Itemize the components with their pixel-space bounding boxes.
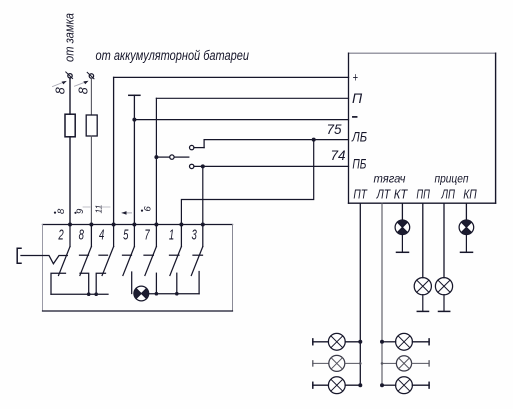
- lamp HL5 row2: [381, 356, 429, 371]
- wire: battery + line to flasher box: [114, 76, 349, 78]
- node: ПП bottom terminal bar: [417, 310, 428, 312]
- wire: drop to switch terminal 3: [202, 166, 204, 224]
- wire: minus line to flasher box: [134, 119, 348, 121]
- switch contact 5: stem, blade, fixed tick: [123, 225, 135, 276]
- switch contact 8: stem, blade, fixed tick: [80, 225, 92, 276]
- svg-text:КП: КП: [463, 186, 477, 201]
- wire: П drop to switch terminal 7: [155, 98, 157, 224]
- svg-text:ЛБ: ЛБ: [351, 130, 367, 145]
- svg-text:от аккумуляторной батареи: от аккумуляторной батареи: [96, 48, 250, 63]
- wire: ПП lamp to terminal bar: [422, 295, 424, 312]
- lamp HL-КП (control lamp trailer): [459, 220, 474, 235]
- switch contact 1: stem, blade, fixed tick: [170, 225, 182, 276]
- svg-text:прицеп: прицеп: [435, 173, 470, 185]
- junction dot bus at contact 1 dropper: [175, 292, 179, 296]
- lamp HL-КТ (control lamp tractor): [395, 220, 410, 235]
- switch contact 3: stem, blade, fixed tick: [191, 225, 203, 276]
- svg-text:от замка: от замка: [62, 13, 77, 62]
- svg-text:5: 5: [123, 227, 128, 244]
- wire: right ignition wire upper: [90, 78, 92, 115]
- wire: КП to control lamp: [465, 203, 467, 220]
- switch contact 4: stem, blade, fixed tick: [99, 225, 114, 276]
- svg-text:3: 3: [192, 227, 197, 244]
- junction dot bus at contact 7 dropper: [155, 292, 159, 296]
- pin label −: [353, 116, 357, 118]
- wire: КТ lamp to terminal bar: [401, 235, 403, 253]
- wire: ПТ to right lamp group bus: [359, 203, 361, 386]
- wire: left ignition wire lower: [69, 137, 71, 225]
- wire label 11 above terminal 4: [94, 204, 111, 213]
- wire: ЛБ / 75 line to flasher box: [204, 139, 348, 141]
- junction dot row1 on ПТ bus: [358, 340, 362, 344]
- fuse F2: [86, 115, 97, 136]
- wire: contact 5 dropper to lamp: [131, 272, 133, 294]
- wire label 8 above terminal 2: [54, 208, 67, 214]
- junction: minus line tap: [132, 118, 136, 122]
- node: feed bracket at left of switch: [17, 248, 21, 263]
- switch block SA1 (hazard/light switch): [43, 225, 233, 312]
- svg-text:6: 6: [143, 206, 154, 212]
- svg-text:1: 1: [169, 227, 174, 244]
- lamp HL-ЛП: [435, 278, 452, 295]
- junction dots at switch box top edge: [68, 223, 72, 227]
- relay box U1 (flasher unit): [349, 53, 496, 203]
- wire: contact 2 hook and dropper: [51, 273, 66, 294]
- svg-text:8: 8: [79, 227, 84, 244]
- wire: КП lamp to terminal bar: [465, 235, 467, 253]
- wire label 8 (right ignition wire): [75, 81, 91, 95]
- svg-text:4: 4: [99, 227, 104, 244]
- wire: КТ to control lamp: [401, 203, 403, 220]
- node: ignition feed terminal 2 (circle with slash): [87, 72, 94, 79]
- svg-text:8: 8: [77, 87, 91, 94]
- wire: left ignition wire upper: [69, 78, 71, 114]
- lamp HL-SA (switch block illumination lamp): [134, 286, 149, 301]
- svg-text:КТ: КТ: [394, 186, 408, 201]
- switch contact 2: stem and blade: [59, 225, 71, 276]
- wire label 9 above terminal 8: [74, 207, 90, 214]
- wire: ЛТ to left lamp group bus: [381, 203, 383, 386]
- svg-text:ЛТ: ЛТ: [376, 186, 391, 201]
- junction: turn-switch wiper tap: [154, 155, 158, 159]
- lamp HL6 row3: [382, 377, 429, 394]
- wire: drop to switch terminal 5: [133, 95, 135, 224]
- switch S1 wiper arm: [156, 155, 188, 159]
- junction dot bus at contact 4 dropper: [94, 292, 98, 296]
- wire: bus from lamp to contact 3 dropper: [149, 293, 199, 295]
- wire: ПП to lamp: [422, 203, 424, 277]
- wire: bus under contacts 2-4: [51, 293, 108, 295]
- wire: contact 3 dropper: [198, 272, 200, 294]
- svg-text:7: 7: [144, 227, 150, 244]
- svg-text:ПБ: ПБ: [352, 157, 366, 172]
- junction dot row3 on ПТ bus: [358, 383, 362, 387]
- wire: contact 4 hook and dropper: [96, 273, 105, 294]
- junction dot row1 on ЛТ bus: [380, 340, 384, 344]
- junction dot bus at contact 8 dropper: [87, 292, 91, 296]
- fuse F1: [65, 114, 75, 137]
- lamp HL1 row1: [313, 333, 361, 350]
- node: terminal T-bar on wire 5: [129, 94, 140, 96]
- wire: terminal 1 riser to ЛБ line: [181, 140, 313, 225]
- svg-text:9: 9: [75, 208, 86, 214]
- node: ignition feed terminal 1 (circle with slash): [66, 72, 73, 79]
- wire: contact 1 dropper: [176, 273, 178, 294]
- svg-text:8: 8: [54, 87, 68, 94]
- svg-text:+: +: [353, 71, 359, 85]
- svg-text:74: 74: [331, 148, 346, 163]
- wire: right ignition wire lower: [90, 136, 92, 225]
- lamp HL4 row1: [382, 333, 429, 350]
- svg-text:8: 8: [56, 208, 67, 214]
- wire: ЛП to lamp: [443, 203, 445, 277]
- wire: contact 7 dropper: [155, 273, 157, 294]
- lamp HL-ПП: [414, 278, 431, 295]
- wire: ЛП lamp to terminal bar: [443, 295, 445, 312]
- switch contact 7: stem, blade, fixed tick: [144, 225, 156, 276]
- switch S1 lower contact (to ПБ): [190, 164, 349, 168]
- junction: ПБ tap to terminal 3: [201, 164, 205, 168]
- lamp HL2 row2: [313, 355, 362, 371]
- node: КТ bottom terminal bar: [397, 251, 409, 253]
- node: ЛП bottom terminal bar: [439, 310, 450, 312]
- node: КП bottom terminal bar: [461, 251, 473, 253]
- wire: feed with V wiper notch: [21, 256, 67, 264]
- svg-text:75: 75: [327, 122, 343, 137]
- svg-text:ПТ: ПТ: [353, 186, 367, 201]
- wire: battery + drop to switch terminal 4: [113, 77, 115, 224]
- wire label 8 (left ignition wire): [53, 81, 68, 94]
- wire label arrow above terminal 5: [122, 211, 132, 215]
- switch S1 upper contact (to ЛБ): [190, 140, 205, 150]
- lamp HL3 row3: [313, 377, 361, 394]
- svg-text:2: 2: [58, 227, 64, 244]
- svg-text:11: 11: [94, 204, 104, 213]
- junction dot row3 on ЛТ bus: [380, 383, 384, 387]
- svg-text:тягач: тягач: [374, 173, 406, 185]
- wire: contact 8 hook and dropper: [80, 273, 89, 294]
- wire label 6 above terminal 7: [141, 206, 154, 212]
- svg-text:П: П: [352, 90, 363, 106]
- junction: ЛБ tap to terminal 1: [312, 138, 316, 142]
- svg-text:ПП: ПП: [416, 186, 430, 201]
- wire: П line to flasher box: [156, 97, 348, 99]
- svg-text:ЛП: ЛП: [441, 186, 456, 201]
